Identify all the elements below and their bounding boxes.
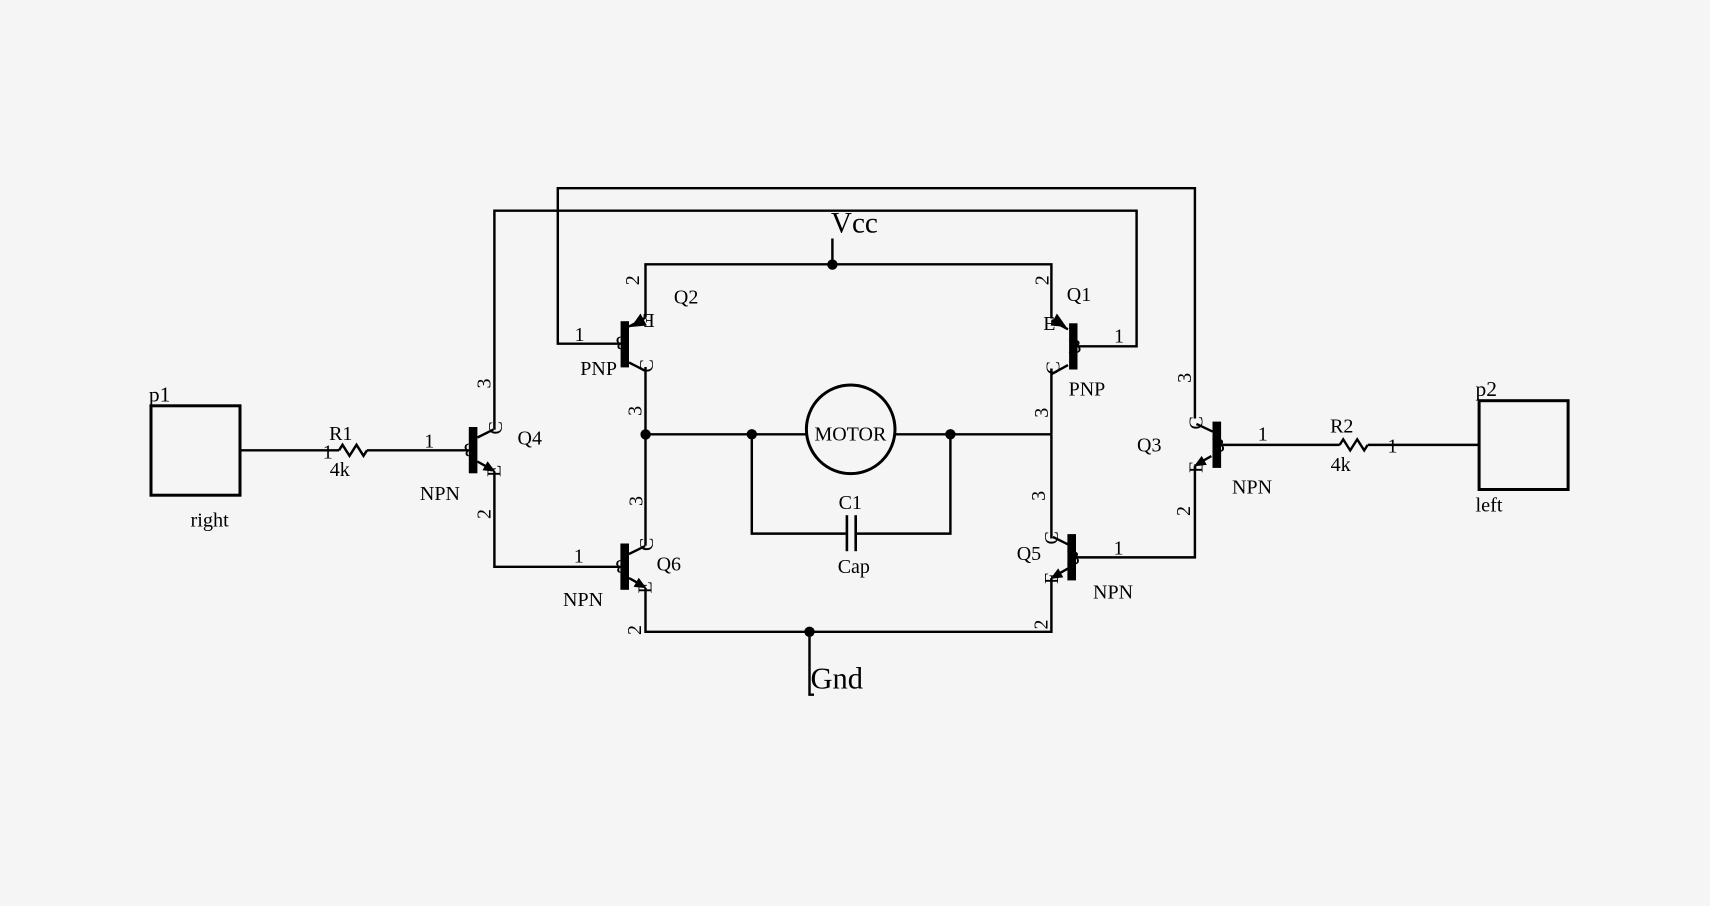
resistor R2 — [1330, 415, 1397, 476]
svg-text:3: 3 — [625, 406, 647, 416]
svg-text:R2: R2 — [1330, 415, 1353, 437]
svg-text:E: E — [1041, 572, 1063, 584]
svg-text:C: C — [636, 359, 658, 372]
svg-text:2: 2 — [1031, 275, 1053, 285]
svg-text:Gnd: Gnd — [811, 662, 864, 696]
svg-text:3: 3 — [1031, 408, 1053, 418]
svg-text:3: 3 — [1174, 373, 1196, 383]
wire motor right to node B — [895, 433, 1052, 435]
svg-text:left: left — [1476, 495, 1503, 517]
svg-text:Q3: Q3 — [1137, 434, 1161, 456]
wire R1 to Q4 base — [367, 449, 469, 451]
svg-text:p1: p1 — [149, 383, 171, 407]
wire Q5 base to Q3 emitter — [1076, 466, 1195, 558]
svg-text:p2: p2 — [1476, 377, 1498, 401]
svg-text:Q1: Q1 — [1067, 284, 1091, 306]
ground Gnd — [810, 632, 864, 696]
svg-text:1: 1 — [574, 546, 584, 568]
svg-text:Cap: Cap — [838, 556, 870, 578]
svg-text:C: C — [636, 538, 658, 551]
svg-text:E: E — [1043, 313, 1055, 335]
svg-text:E: E — [1186, 461, 1208, 473]
svg-text:Q4: Q4 — [518, 427, 542, 449]
transistor Q4 — [420, 379, 542, 520]
transistor Q5 — [1017, 491, 1133, 630]
svg-text:2: 2 — [1173, 506, 1195, 516]
svg-text:1: 1 — [424, 430, 434, 452]
transistor Q3 — [1137, 373, 1272, 516]
wire R2 to p2 — [1368, 444, 1479, 446]
svg-text:C: C — [485, 421, 507, 434]
svg-text:right: right — [191, 510, 230, 532]
svg-text:2: 2 — [473, 509, 495, 519]
svg-text:PNP: PNP — [580, 358, 617, 380]
power Vcc — [827, 208, 878, 270]
wire p1 to R1 — [240, 449, 339, 451]
svg-text:4k: 4k — [1331, 454, 1351, 476]
svg-text:2: 2 — [622, 275, 644, 285]
wire node to motor left — [646, 433, 807, 435]
port p2 — [1476, 377, 1569, 517]
svg-text:3: 3 — [473, 379, 495, 389]
wire Q3 base to R2 — [1221, 444, 1340, 446]
motor M1 — [806, 385, 895, 474]
svg-text:NPN: NPN — [1232, 477, 1272, 499]
svg-text:NPN: NPN — [1093, 582, 1133, 604]
wire Q2 base to Q3 collector — [558, 188, 1195, 418]
svg-text:1: 1 — [1258, 424, 1268, 446]
svg-text:1: 1 — [1388, 436, 1398, 458]
wire Q1 collector to node B — [1050, 369, 1052, 435]
svg-text:3: 3 — [1028, 491, 1050, 501]
svg-text:2: 2 — [1031, 620, 1053, 630]
junction dot cap left — [747, 429, 757, 439]
wire Q2 collector to node — [644, 367, 646, 434]
transistor Q1 — [1031, 275, 1105, 418]
wire node to Q6 collector — [644, 434, 646, 546]
svg-text:Vcc: Vcc — [831, 208, 878, 240]
svg-text:MOTOR: MOTOR — [814, 423, 887, 445]
node A junction dot — [640, 429, 650, 439]
capacitor C1 — [752, 434, 951, 578]
junction dot cap right — [945, 429, 955, 439]
svg-text:1: 1 — [1114, 326, 1124, 348]
wire Vcc rail Q2 emitter to Q1 emitter — [646, 264, 1052, 318]
resistor R1 — [323, 423, 367, 481]
svg-text:NPN: NPN — [420, 483, 460, 505]
svg-text:C1: C1 — [839, 492, 862, 514]
svg-text:2: 2 — [624, 625, 646, 635]
svg-text:C: C — [1042, 361, 1064, 374]
transistor Q2 — [580, 275, 698, 416]
transistor Q6 — [563, 496, 681, 635]
svg-text:Q5: Q5 — [1017, 543, 1041, 565]
svg-text:Q2: Q2 — [674, 287, 698, 309]
svg-text:C: C — [1186, 416, 1208, 429]
port p1 — [149, 383, 240, 532]
wire node B to Q5 collector — [1050, 434, 1052, 538]
svg-text:Q6: Q6 — [657, 553, 681, 575]
wire Q6 emitter to ground rail — [646, 578, 1052, 632]
svg-text:NPN: NPN — [563, 589, 603, 611]
svg-text:1: 1 — [323, 441, 333, 463]
svg-text:PNP: PNP — [1069, 378, 1106, 400]
wire Q4 collector to Q1 base — [494, 211, 1136, 430]
svg-text:3: 3 — [625, 496, 647, 506]
ground junction dot — [804, 627, 814, 637]
wire Q4 emitter to Q6 base — [494, 472, 620, 567]
svg-text:C: C — [1041, 531, 1063, 544]
